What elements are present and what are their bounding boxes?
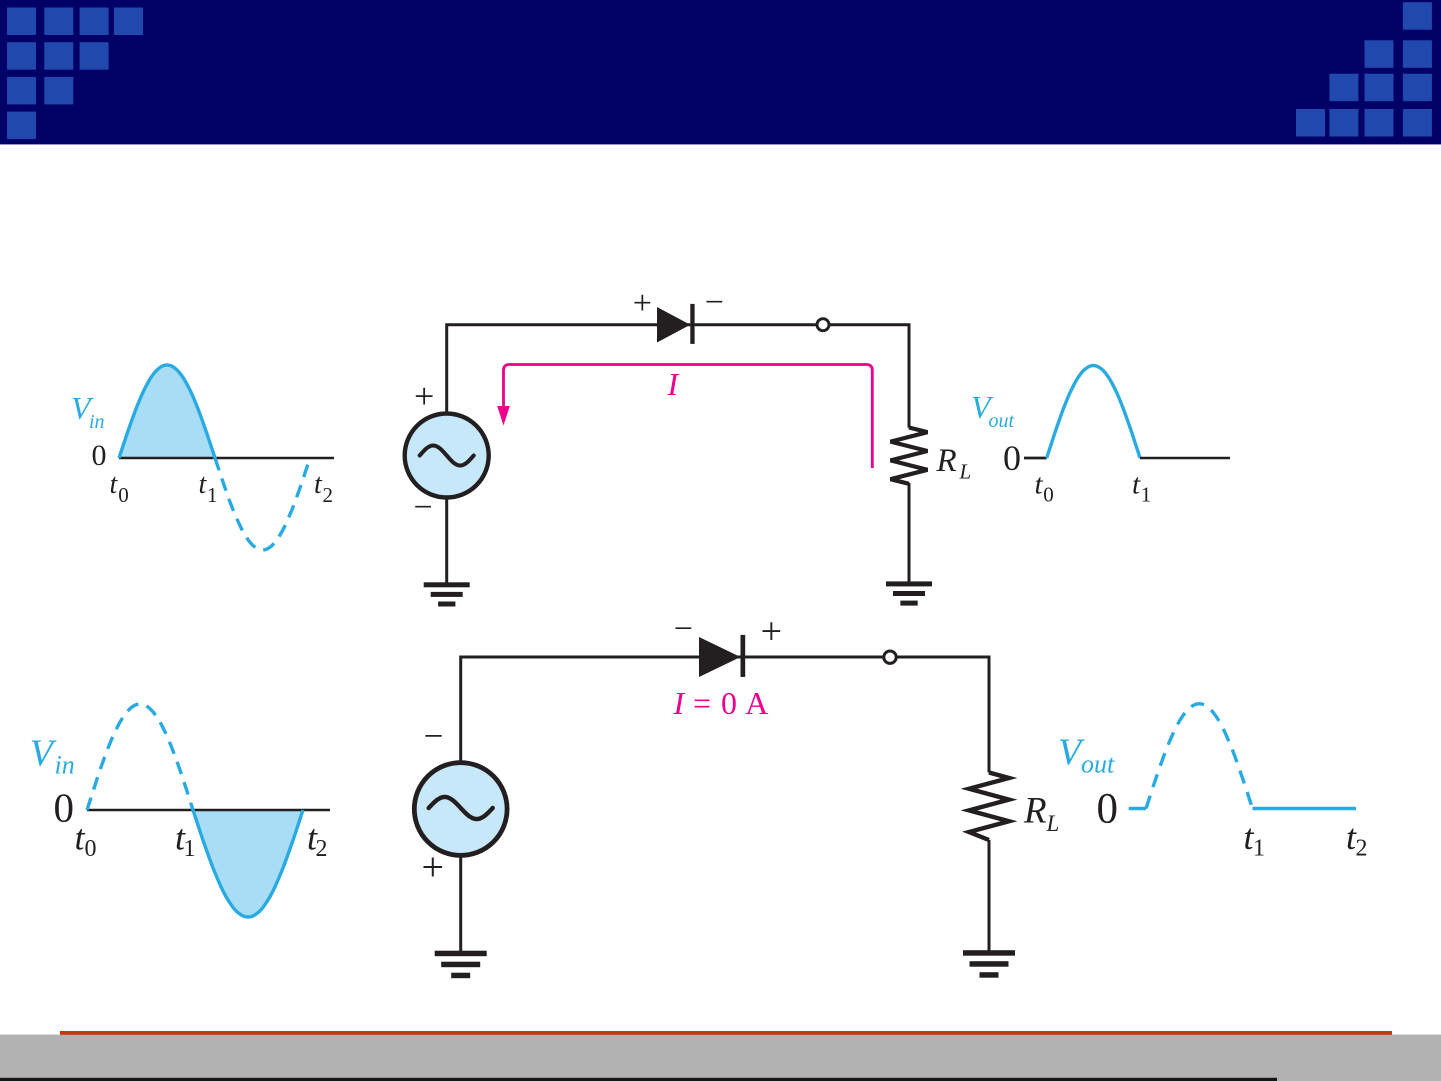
svg-text:0: 0 — [1097, 786, 1119, 833]
svg-text:+: + — [422, 845, 445, 890]
svg-text:L: L — [959, 460, 972, 484]
svg-text:0: 0 — [118, 483, 129, 507]
svg-text:0: 0 — [92, 439, 107, 472]
svg-text:1: 1 — [184, 836, 196, 862]
svg-text:0: 0 — [54, 785, 75, 831]
svg-text:1: 1 — [1141, 483, 1152, 507]
svg-text:0: 0 — [85, 836, 97, 862]
svg-text:I: I — [673, 685, 686, 721]
svg-text:1: 1 — [1253, 836, 1265, 862]
svg-text:−: − — [705, 284, 724, 321]
svg-text:t: t — [110, 469, 119, 500]
svg-text:t: t — [1132, 469, 1141, 501]
svg-text:in: in — [55, 751, 75, 780]
svg-text:t: t — [1035, 469, 1044, 501]
svg-text:−: − — [414, 489, 433, 526]
svg-text:I: I — [667, 366, 680, 402]
svg-text:R: R — [1023, 791, 1047, 832]
svg-text:+: + — [761, 611, 782, 653]
svg-text:out: out — [989, 410, 1015, 432]
svg-text:1: 1 — [207, 483, 218, 507]
svg-text:2: 2 — [316, 836, 328, 862]
svg-text:+: + — [633, 285, 652, 322]
svg-text:0: 0 — [1003, 438, 1021, 478]
svg-text:= 0 A: = 0 A — [693, 685, 769, 721]
svg-text:V: V — [30, 733, 57, 775]
svg-text:−: − — [424, 717, 444, 756]
svg-text:L: L — [1046, 811, 1060, 836]
svg-text:−: − — [674, 611, 693, 648]
svg-text:R: R — [936, 443, 957, 479]
svg-text:in: in — [89, 411, 105, 433]
svg-text:+: + — [414, 376, 434, 416]
svg-text:0: 0 — [1043, 483, 1054, 507]
svg-text:out: out — [1081, 750, 1115, 779]
svg-text:2: 2 — [323, 483, 334, 507]
svg-text:2: 2 — [1356, 836, 1368, 862]
